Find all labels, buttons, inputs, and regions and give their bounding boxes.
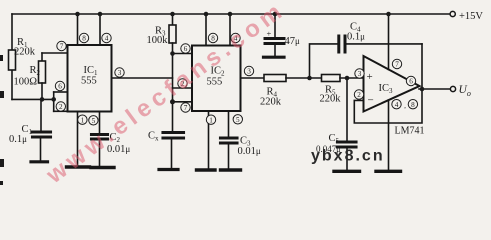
capacitor C1 [33,99,51,160]
IC1 pin 8 [79,33,88,42]
svg-text:+15V: +15V [459,11,483,22]
IC2 555 box [192,46,241,112]
IC1 pin 5 [89,116,98,125]
wire C4 left branch [310,44,338,78]
IC3 pin 8 [404,100,417,111]
svg-text:7: 7 [395,61,399,69]
ground C1 [31,160,48,163]
resistor R5 [322,75,364,82]
svg-text:5: 5 [92,117,96,125]
capacitor C3 [221,111,238,169]
resistor R4 [264,75,322,82]
svg-text:0.1μ: 0.1μ [9,134,27,145]
ground 47u [264,56,285,59]
wire IC2 pin2 stub [173,87,193,89]
wire IC2 pin4 to rail [229,14,231,46]
svg-text:4: 4 [105,35,109,43]
node rail-R3 [170,12,175,17]
wire IC3 pin4 to ground [388,100,390,171]
ground C3 [221,168,241,171]
node rail-IC2pin4 [228,12,233,17]
IC1 pin 1 [78,115,87,124]
op-amp IC3 triangle [364,56,420,112]
capacitor C4 [339,36,345,52]
IC1 pin 4 [102,33,111,42]
resistor R3 [169,14,176,54]
ground IC1 pin1 [67,165,90,168]
IC1 pin 3 [115,68,124,77]
svg-text:3: 3 [247,68,251,76]
wire left branch vertical [11,14,13,99]
ground Cx [159,168,178,171]
IC1 555 box [68,45,112,112]
IC2 pin 7 [181,103,190,112]
ground IC3 [376,170,401,173]
node output [420,87,425,92]
svg-text:2: 2 [59,103,63,111]
IC2 pin 5 [233,115,242,124]
wire IC2 pin1 to ground [208,111,210,169]
svg-text:555: 555 [207,77,223,88]
svg-text:8: 8 [82,35,86,43]
wire IC2 pin7 stub [173,101,193,103]
svg-text:6: 6 [409,78,413,86]
svg-text:LM741: LM741 [395,126,425,137]
IC3 pin 6 [406,76,415,85]
svg-text:220k: 220k [320,94,342,105]
terminal Uo [450,86,455,91]
wire IC1 pin1 to ground [77,112,79,167]
capacitor C5 [338,78,357,170]
IC2 pin 4 [231,33,240,42]
IC1 pin 6 [55,81,64,90]
wire IC1 pin6 stub [54,91,68,93]
scan artifact marks on left edge [0,55,4,185]
IC1 pin 7 [57,41,66,50]
svg-text:6: 6 [184,45,188,53]
node rail-IC2pin8 [204,12,209,17]
wire +15V power rail [12,13,450,15]
svg-text:8: 8 [411,101,415,109]
svg-text:2: 2 [357,91,361,99]
node rail-IC3pin7 [386,12,391,17]
svg-text:47μ: 47μ [285,36,301,47]
wire IC2 pin6 stub [173,53,193,55]
wire R3/Cx node vertical [172,54,174,132]
pin number circles [55,33,417,125]
node R5-C5 [345,76,350,81]
wire IC2 pin8 to rail [205,14,207,46]
node R2-C1 [40,97,45,102]
node R3 bottom [170,51,175,56]
svg-text:220k: 220k [14,47,36,58]
svg-text:0.01μ: 0.01μ [238,146,261,157]
IC1 pin 2 [56,102,65,111]
svg-text:3: 3 [118,69,122,77]
wire IC1 pin2 stub [54,110,68,112]
wire pin6/pin2 vertical [53,92,55,111]
svg-text:7: 7 [184,104,188,112]
node rail-IC1pin4 [98,12,103,17]
svg-text:555: 555 [81,76,97,87]
svg-text:4: 4 [395,101,399,109]
svg-text:220k: 220k [260,97,282,108]
IC3 pin 7 [392,59,401,68]
wire output [419,88,450,90]
ground IC2 pin1 [197,168,216,171]
wire C4 right to feedback [347,43,423,45]
capacitor 47u electrolytic [265,14,284,56]
wire IC1 pin4 to rail [99,14,101,45]
IC2 pin 3 [244,66,253,75]
svg-text:1: 1 [81,116,85,124]
svg-text:+: + [367,71,373,83]
svg-text:7: 7 [60,43,64,51]
svg-text:−: − [368,95,374,107]
IC2 pin 8 [208,33,217,42]
ground C5 [334,170,360,173]
wire IC2 pin3 output [241,77,265,79]
IC2 pin 6 [181,44,190,53]
node rail-47u [273,12,278,17]
IC2 pin 1 [206,115,215,124]
svg-text:0.1μ: 0.1μ [347,32,365,43]
wire IC1 pin7 stub [42,52,68,54]
wire IC1 pin3 output [112,77,173,79]
wire IC3 pin7 to rail [388,14,390,70]
svg-text:6: 6 [58,83,62,91]
node rail-IC1pin8 [75,12,80,17]
terminal +15V [450,11,455,16]
node R4-R5-C4 [307,76,312,81]
svg-text:5: 5 [236,116,240,124]
wire bottom-left horizontal [12,98,54,100]
resistor R1 [9,50,16,70]
ground C2 [91,166,114,169]
node left-pin62 [51,97,56,102]
capacitor Cx [163,133,184,169]
capacitor C2 [92,112,108,167]
svg-text:3: 3 [358,70,362,78]
wire IC3 pin2 feedback loop [354,44,422,123]
IC3 pin 3 [355,69,364,78]
node IC2pin7 [170,99,175,104]
svg-text:1: 1 [209,116,213,124]
wire IC1 pin8 to rail [77,14,79,45]
IC2 pin 2 [178,79,187,88]
svg-text:100k: 100k [147,35,169,46]
svg-text:ybx8.cn: ybx8.cn [311,148,385,165]
svg-text:,: , [404,102,406,110]
svg-text:100Ω: 100Ω [14,77,38,88]
resistor R2 [39,53,46,99]
IC3 pin 2 [354,90,363,99]
IC3 pin 4 [392,100,401,109]
